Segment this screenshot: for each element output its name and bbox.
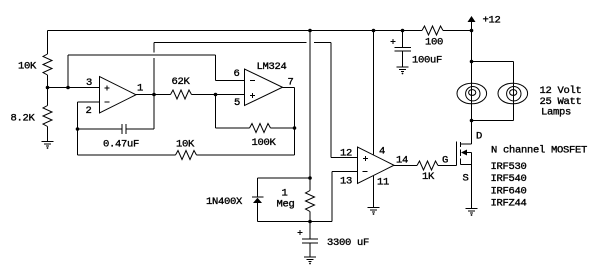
wire 62K to pin 5 xyxy=(192,94,245,96)
transistor Q1 channel segments xyxy=(460,142,462,147)
svg-text:IRFZ44: IRFZ44 xyxy=(491,198,527,210)
wire pin 3 horizontal xyxy=(48,87,100,89)
svg-text:+12: +12 xyxy=(483,15,501,27)
wire drain horizontal xyxy=(461,143,472,145)
resistor 1 Meg xyxy=(306,191,315,212)
wire x153.5 y42 to hop xyxy=(153,43,155,53)
svg-text:Meg: Meg xyxy=(277,199,295,211)
node junction dot 100K/output xyxy=(293,126,297,130)
wire feedback y54.5 from divider node to pin 6 column xyxy=(68,54,216,56)
op-amp U1C triangle xyxy=(358,147,395,184)
resistor 100K xyxy=(250,124,271,133)
svg-text:0.47uF: 0.47uF xyxy=(103,139,139,151)
wire box bottom xyxy=(258,221,333,223)
svg-text:100uF: 100uF xyxy=(412,55,442,67)
wire arrow to source column xyxy=(467,152,472,154)
wire 1K to gate xyxy=(438,165,457,167)
svg-text:IRF640: IRF640 xyxy=(491,185,527,197)
node junction dot pin5/100K tap xyxy=(214,93,218,97)
capacitor 3300uF plus xyxy=(298,232,303,234)
wire x47 top rail down to 10K xyxy=(47,31,49,55)
svg-text:1K: 1K xyxy=(422,171,435,183)
wire x294 output down xyxy=(294,88,296,156)
wire x513 right lamp branch xyxy=(513,62,515,121)
wire 100K row left xyxy=(216,127,250,129)
wire x47 between 10K and 8.2K xyxy=(47,75,49,106)
wire top +12 rail right segment xyxy=(443,30,472,32)
wire U1B output xyxy=(283,87,295,89)
lamp left bulb xyxy=(457,83,487,104)
wire pin 2 horizontal xyxy=(78,101,100,103)
op-amp U1C plus (pin 12) xyxy=(363,157,368,159)
wire bottom loop right xyxy=(197,154,295,156)
svg-text:5: 5 xyxy=(234,97,240,109)
resistor 100 (zigzag on +12 rail) xyxy=(422,26,443,35)
svg-text:7: 7 xyxy=(288,77,294,89)
op-amp U1A plus (pin 3) xyxy=(104,87,109,89)
node junction dot at op-amp U1C V+ column / top rail xyxy=(372,29,376,33)
svg-text:1: 1 xyxy=(137,83,143,95)
wire U1C output to 1K xyxy=(394,165,417,167)
node junction dot lamp top xyxy=(470,60,474,64)
svg-text:3300 uF: 3300 uF xyxy=(327,237,369,249)
wire bottom loop left xyxy=(78,154,176,156)
wire x153.5 hop to output node xyxy=(153,58,155,95)
wire 100uF from top rail xyxy=(402,31,404,48)
svg-text:D: D xyxy=(476,131,482,143)
ground below 100uF xyxy=(397,66,409,68)
wire pin 6 horizontal xyxy=(216,80,245,82)
svg-text:N channel MOSFET: N channel MOSFET xyxy=(491,145,587,157)
ground below MOSFET xyxy=(466,208,478,210)
node junction dot cap left xyxy=(76,127,80,131)
ground below 8.2K xyxy=(42,141,54,143)
svg-text:13: 13 xyxy=(340,176,352,188)
diode 1N400X xyxy=(252,196,264,198)
wire x47 8.2K to ground xyxy=(47,127,49,142)
wire 100uF to ground xyxy=(402,51,404,67)
wire lamp top xyxy=(472,61,514,63)
wire box left lower xyxy=(257,203,259,222)
power +12 arrow xyxy=(468,16,476,22)
wire U1A output to 62K xyxy=(136,94,171,96)
wire x153.5 output node down to cap xyxy=(153,95,155,130)
svg-text:62K: 62K xyxy=(172,76,191,88)
svg-text:100K: 100K xyxy=(252,137,277,149)
svg-text:IRF530: IRF530 xyxy=(491,161,527,173)
resistor 10K (timing) xyxy=(176,151,197,160)
transistor Q1 gate bar xyxy=(456,142,458,166)
transistor Q1 arrow xyxy=(461,150,467,156)
wire vertical x215 down to pin 6 xyxy=(215,55,217,81)
node junction dot at 1 Meg column / top rail xyxy=(308,29,312,33)
resistor 8.2K (lower divider) xyxy=(43,106,52,127)
svg-text:100: 100 xyxy=(425,37,443,49)
wire source horizontal xyxy=(461,164,472,166)
node junction dot pin3/feedback tap xyxy=(66,86,70,90)
op-amp U1B plus (pin 5) xyxy=(250,95,255,97)
svg-text:10K: 10K xyxy=(176,139,195,151)
svg-text:IRF540: IRF540 xyxy=(491,173,527,185)
capacitor 100uF plates xyxy=(395,47,412,49)
wire pin 2 down to 0.47uF xyxy=(77,102,79,155)
capacitor 3300uF plates xyxy=(302,238,318,240)
node junction dot lamp bottom xyxy=(470,119,474,123)
wire cap row right xyxy=(127,128,155,130)
capacitor 100uF plus xyxy=(391,41,396,43)
wire 3300uF to ground xyxy=(309,243,311,257)
wire box top xyxy=(258,177,311,179)
wire 1Meg to 3300uF xyxy=(309,212,311,240)
wire source column down xyxy=(471,153,473,209)
wire x215 pin5 down to 100K row xyxy=(215,95,217,129)
node junction dot U1A output xyxy=(152,93,156,97)
wire pin 13 horizontal xyxy=(332,171,358,173)
svg-text:Lamps: Lamps xyxy=(541,107,571,119)
wire x331.5 up to pin 13 xyxy=(331,172,333,222)
ground below op-amp U1C xyxy=(368,207,380,209)
svg-text:6: 6 xyxy=(234,68,240,80)
svg-text:4: 4 xyxy=(379,146,385,158)
node junction dot box bottom xyxy=(308,220,312,224)
node junction dot at 100uF cap / top rail xyxy=(401,29,405,33)
wire pin 12 horizontal xyxy=(331,157,358,159)
svg-text:G: G xyxy=(442,155,448,167)
ground below 3300uF xyxy=(304,256,316,258)
resistor 10K (upper divider) xyxy=(43,54,52,75)
svg-text:3: 3 xyxy=(86,77,92,89)
svg-text:LM324: LM324 xyxy=(257,61,287,73)
op-amp U1B triangle xyxy=(245,69,283,106)
resistor 1K xyxy=(417,161,438,170)
wire y42 right segment after hop over 1Meg column xyxy=(314,42,331,44)
wire x309.5 from top rail down to box xyxy=(309,31,311,191)
wire vertical x330.5 down to pin 12 xyxy=(330,43,332,158)
svg-text:S: S xyxy=(463,173,469,185)
svg-text:14: 14 xyxy=(396,155,408,167)
svg-text:2: 2 xyxy=(86,105,92,117)
op-amp U1A triangle xyxy=(100,77,137,114)
op-amp U1A minus (pin 2) xyxy=(104,101,109,103)
node junction dot box top xyxy=(308,176,312,180)
svg-text:1N400X: 1N400X xyxy=(206,196,243,208)
op-amp U1C minus (pin 13) xyxy=(363,170,368,172)
node junction dot divider mid xyxy=(46,86,50,90)
wire y42 left segment (osc output to pin 12) xyxy=(154,42,307,44)
wire top +12 rail left segment xyxy=(48,30,423,32)
node junction dot at +12 column / top rail xyxy=(470,29,474,33)
svg-text:12: 12 xyxy=(340,148,352,160)
svg-text:8.2K: 8.2K xyxy=(11,113,36,125)
svg-text:11: 11 xyxy=(377,177,389,189)
svg-text:10K: 10K xyxy=(18,61,37,73)
lamp right bulb xyxy=(498,83,528,104)
wire vertical x67.5 divider tap xyxy=(67,55,69,88)
wire cap row left xyxy=(78,128,122,130)
wire pin 11 to ground xyxy=(373,176,375,208)
op-amp U1B minus (pin 6) xyxy=(250,80,255,82)
wire box left upper xyxy=(257,178,259,197)
resistor 62K xyxy=(171,90,192,99)
wire lamp bottom xyxy=(472,120,514,122)
wire pin 4 V+ from top rail xyxy=(373,31,375,155)
capacitor 0.47uF plates xyxy=(121,124,123,134)
wire 100K row right xyxy=(271,127,295,129)
wire x471 from arrow through lamps to drain xyxy=(471,22,473,145)
